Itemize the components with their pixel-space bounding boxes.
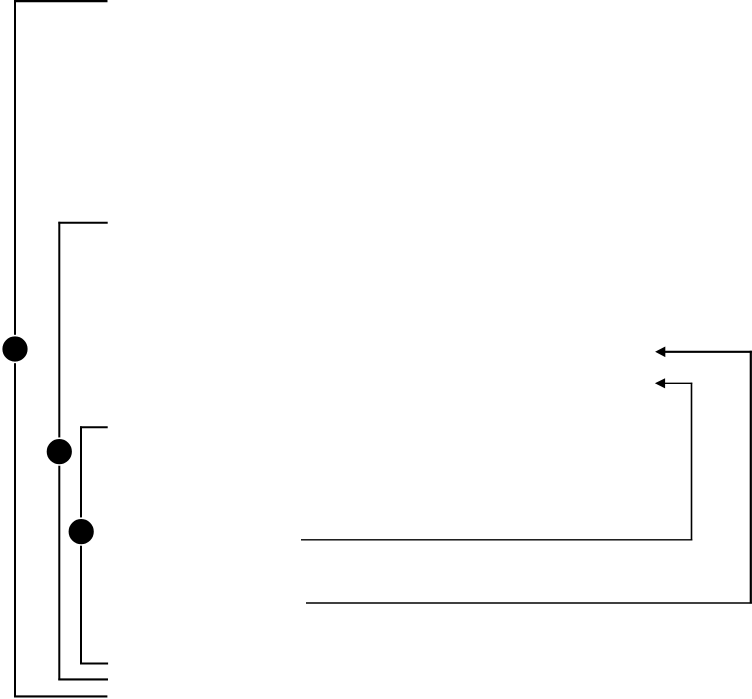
wire net2 vertical [58,222,60,681]
wire A right vertical [750,351,752,604]
junction J2 [46,438,73,465]
wire net2 top horizontal [58,222,107,224]
wire net1 bottom horizontal [14,695,107,697]
wire net1 top horizontal [14,0,108,2]
wire net3 top horizontal [80,426,108,428]
wire net2 bottom horizontal [58,678,108,680]
wire A bottom horizontal [306,602,752,604]
wire B top horizontal [665,382,693,384]
junction J1 [2,336,29,363]
wire A top horizontal [665,351,752,353]
wire net3 vertical [80,426,82,664]
wire B vertical [691,383,693,541]
arrowhead of feedback wire A [655,347,665,358]
arrowhead of feedback wire B [655,378,665,388]
wire net3 bottom horizontal [80,662,108,664]
junction J3 [68,518,95,545]
wire B bottom horizontal [301,539,692,541]
wire net1 vertical [14,0,16,697]
